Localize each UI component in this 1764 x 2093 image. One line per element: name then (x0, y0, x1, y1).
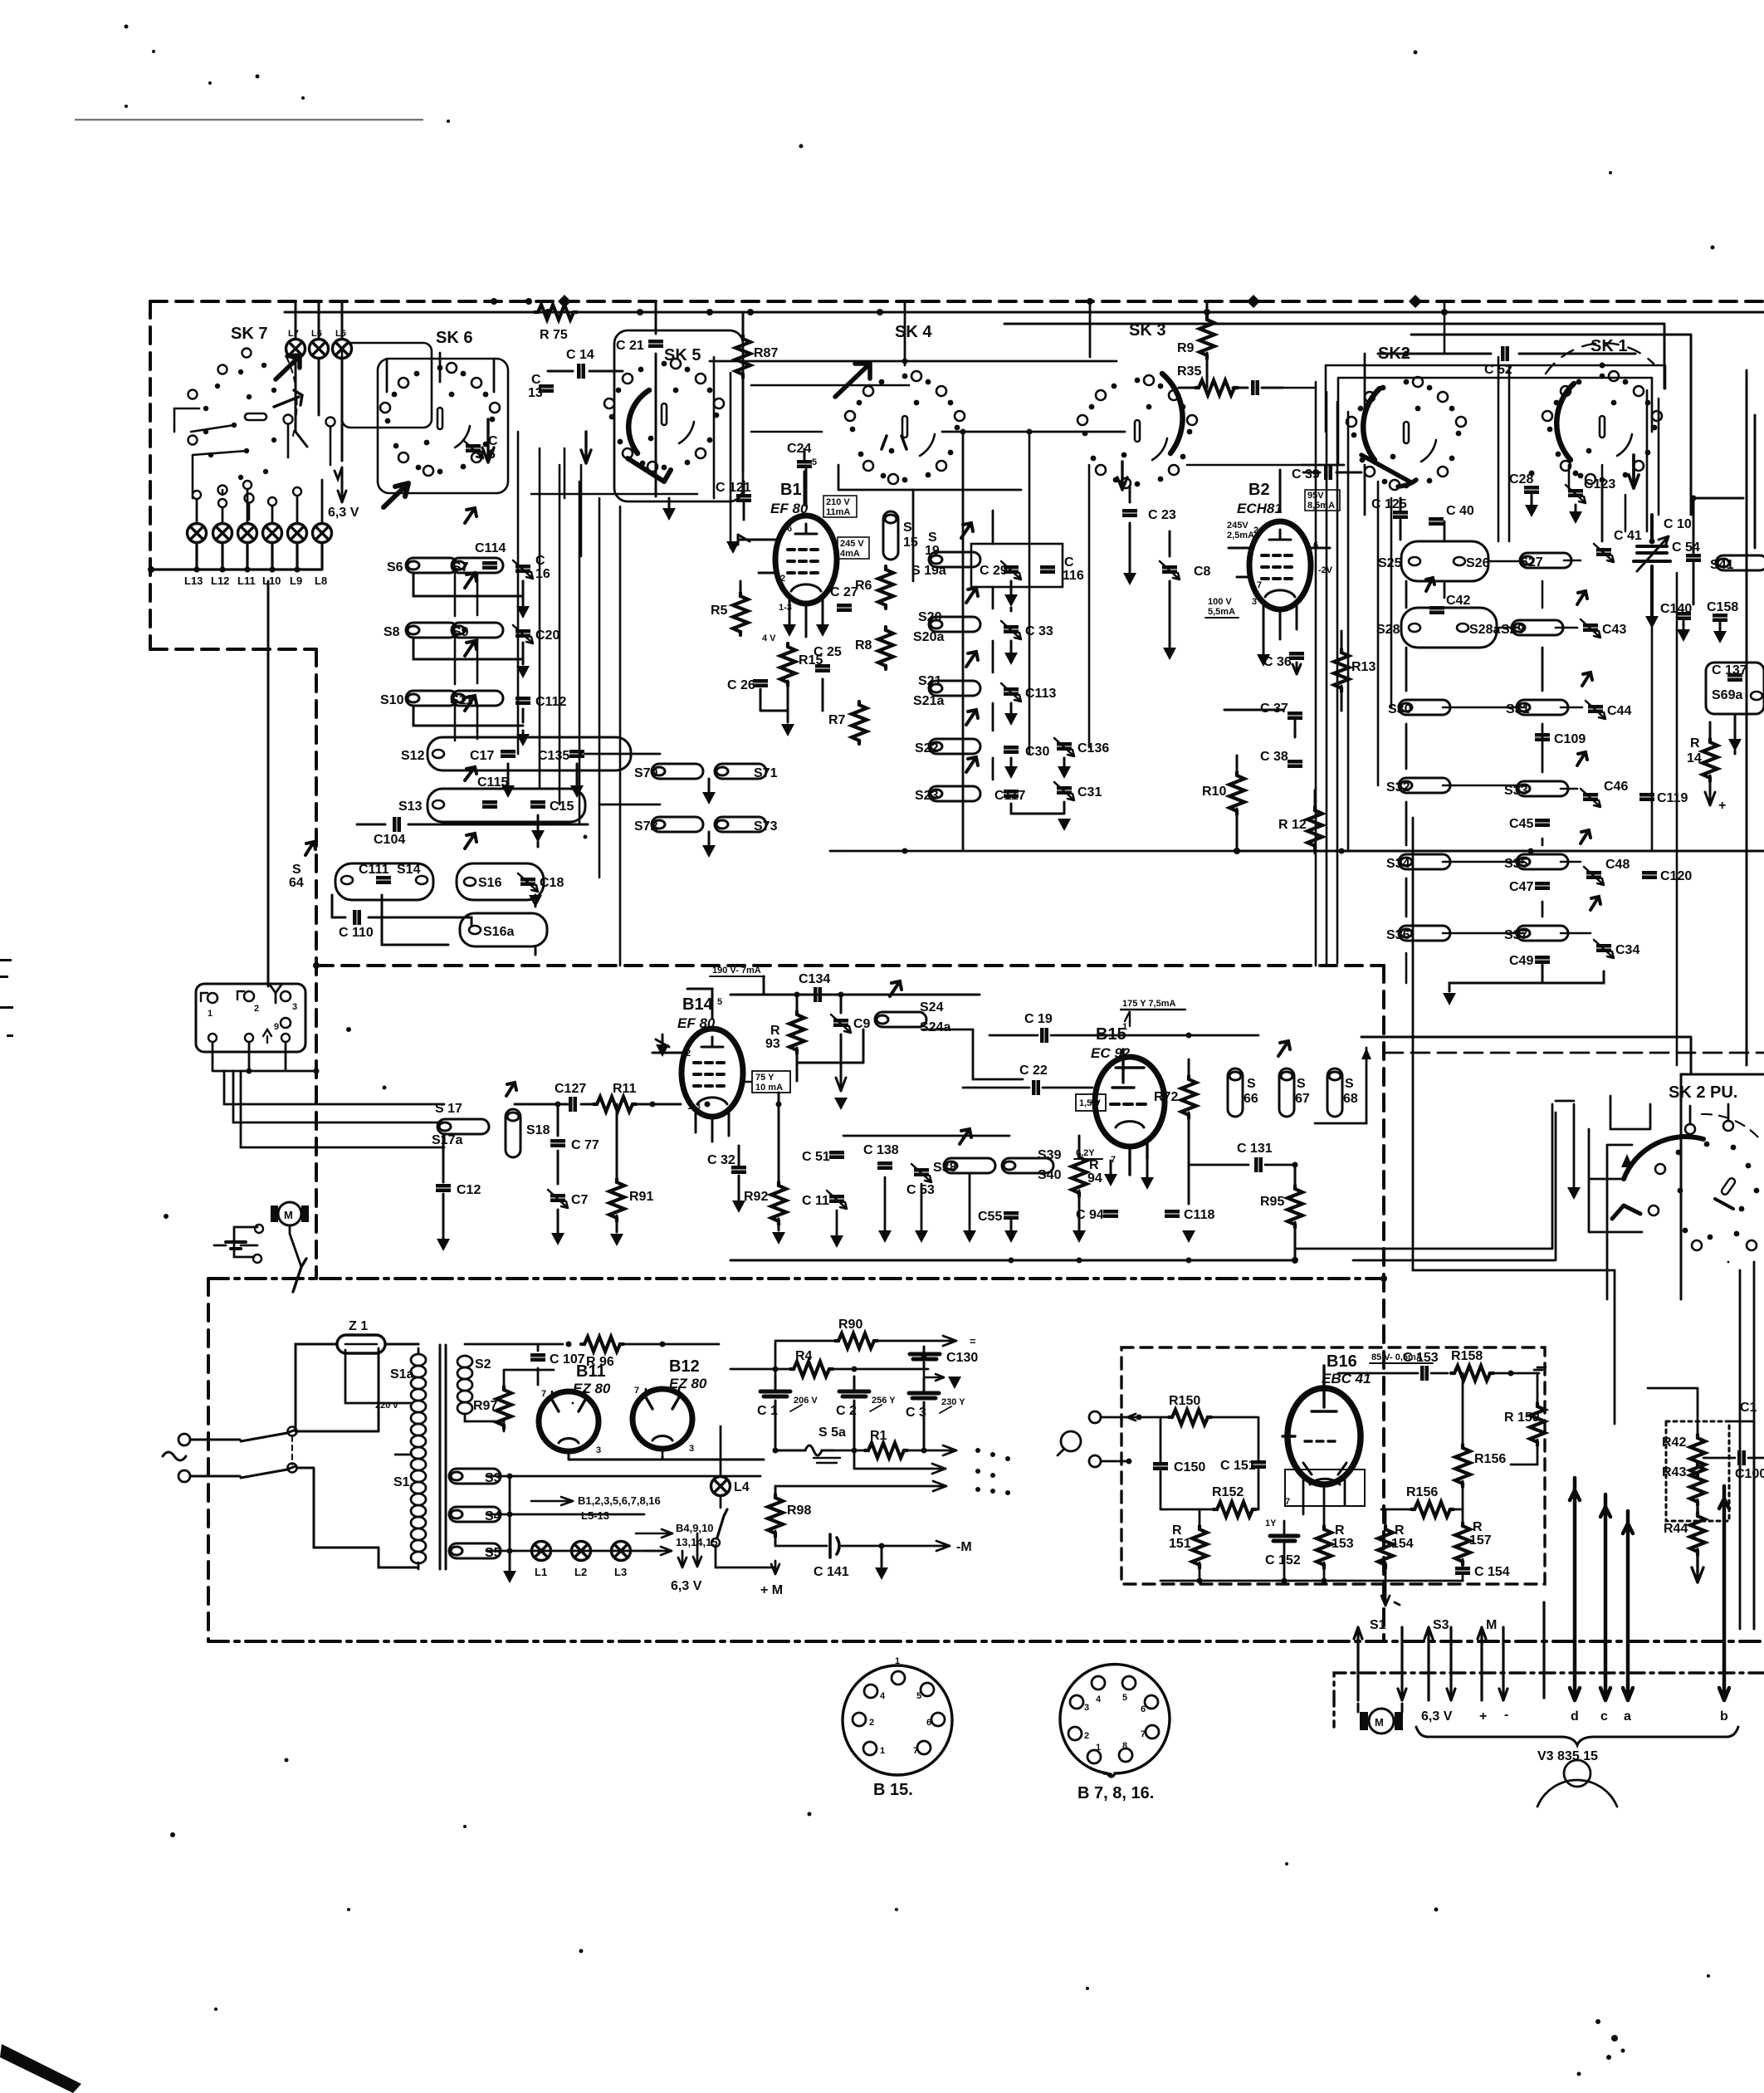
svg-text:S2: S2 (475, 1357, 491, 1372)
svg-text:154: 154 (1391, 1537, 1414, 1551)
pilot lamp L12 (213, 524, 232, 543)
svg-text:B16: B16 (1327, 1352, 1357, 1371)
adj arrow S64 (305, 842, 315, 855)
cap C19 (1040, 1028, 1048, 1043)
cap C40 (1429, 517, 1444, 526)
pilot lamp L8 (313, 524, 332, 543)
SK6 pointer arrow down (482, 419, 494, 462)
tube B16 EBC41 (1288, 1388, 1361, 1484)
IF transformer box S13 C115 C15 (428, 789, 585, 822)
switch SK1 wafer (1542, 371, 1662, 484)
resistor R8 (878, 627, 893, 669)
svg-text:S20a: S20a (913, 630, 944, 644)
cap C153 (1420, 1366, 1429, 1381)
SK7 rotor slot (245, 413, 266, 420)
svg-text:C 22: C 22 (1019, 1064, 1048, 1078)
svg-text:L1: L1 (535, 1566, 547, 1578)
svg-text:+: + (1479, 1709, 1487, 1724)
lamp L4 (711, 1477, 731, 1496)
cap C94 (1103, 1210, 1118, 1218)
SK2 column wires (1406, 581, 1542, 917)
svg-text:C118: C118 (1184, 1208, 1214, 1222)
SK2 rotor thick arm (1361, 455, 1416, 487)
adj arrow S16 (465, 834, 476, 848)
svg-text:C9: C9 (853, 1017, 871, 1031)
lamp L6 (310, 340, 329, 359)
lamp common bus (151, 543, 322, 570)
svg-text:R13: R13 (1351, 660, 1376, 674)
coil S24/S24a (875, 1012, 926, 1027)
B2 pin stubs (1229, 470, 1330, 639)
IF section dashed box top (316, 964, 1384, 967)
coil S36 (1399, 926, 1450, 941)
svg-text:C44: C44 (1607, 704, 1631, 718)
svg-text:S8: S8 (384, 625, 400, 639)
coil S6 (406, 558, 457, 573)
SK2 ground (1443, 993, 1456, 1005)
svg-text:1: 1 (1122, 1022, 1127, 1032)
svg-text:S6: S6 (387, 560, 403, 575)
variable cap C8 (1169, 531, 1171, 648)
svg-text:C 14: C 14 (566, 348, 594, 362)
coil S14 (416, 876, 428, 884)
coil S30 (1399, 700, 1450, 715)
svg-text:EF 80: EF 80 (677, 1015, 716, 1031)
svg-text:S12: S12 (401, 749, 425, 763)
svg-text:C 21: C 21 (616, 339, 644, 353)
coil S38 (944, 1158, 995, 1173)
coil S71 (715, 764, 766, 779)
resistor R42/R43 pot (1690, 1435, 1705, 1477)
wire from lamp bus down the left (267, 581, 270, 986)
svg-text:2: 2 (254, 1004, 259, 1014)
cap C49 (1535, 956, 1550, 964)
svg-text:C 1: C 1 (757, 1404, 778, 1418)
cap C131 (1254, 1157, 1263, 1172)
svg-text:7: 7 (1141, 1729, 1146, 1739)
svg-text:8,5mA: 8,5mA (1307, 501, 1335, 511)
svg-text:C: C (531, 373, 541, 387)
svg-text:C7: C7 (571, 1193, 589, 1207)
svg-text:190 V- 7mA: 190 V- 7mA (712, 966, 761, 976)
resistor R159 (1530, 1403, 1545, 1445)
svg-text:R 159: R 159 (1504, 1411, 1540, 1425)
trimmer C125 (1393, 511, 1408, 519)
cap C23 (1129, 486, 1131, 573)
svg-text:6: 6 (488, 447, 496, 462)
svg-text:R7: R7 (828, 713, 846, 727)
cap C52 on bus (1378, 353, 1635, 355)
coil S8 (406, 623, 457, 638)
coil S9 (452, 623, 503, 638)
svg-text:L6: L6 (311, 329, 322, 339)
resistor R151 (1192, 1526, 1207, 1568)
svg-text:S1a: S1a (390, 1367, 414, 1381)
6.3V feed arrow (338, 469, 346, 502)
svg-text:C 32: C 32 (707, 1153, 735, 1167)
svg-text:L11: L11 (237, 575, 256, 587)
svg-text:1,5 V: 1,5 V (1079, 1098, 1101, 1108)
electrolytic C152 (1270, 1536, 1298, 1541)
SK2 thick stator arc (1363, 389, 1380, 460)
cap C77 (550, 1139, 565, 1147)
coil S67 (1279, 1069, 1294, 1117)
resistor R15 (780, 643, 795, 686)
trimmer C135 (569, 750, 584, 758)
feed wires into SK2PU (1610, 1096, 1728, 1129)
svg-text:B14: B14 (682, 995, 714, 1014)
svg-text:B2: B2 (1248, 481, 1270, 499)
svg-text:16: 16 (535, 567, 550, 581)
svg-text:175 Y 7,5mA: 175 Y 7,5mA (1122, 999, 1175, 1009)
coil S25 (1409, 557, 1420, 565)
svg-text:C 3: C 3 (906, 1406, 926, 1420)
svg-text:S1: S1 (393, 1475, 410, 1489)
bus wire to right (1237, 850, 1764, 853)
transformer primary winding S1 (411, 1348, 426, 1569)
cap C150 (1153, 1462, 1168, 1470)
variable cap C33 (1001, 621, 1021, 639)
svg-text:94: 94 (1087, 1171, 1102, 1186)
coil S23 (929, 786, 980, 801)
svg-text:206 V: 206 V (794, 1396, 818, 1406)
svg-text:R92: R92 (744, 1190, 768, 1204)
svg-text:S: S (903, 521, 912, 535)
svg-text:S21a: S21a (913, 694, 944, 708)
svg-text:SK 7: SK 7 (231, 325, 267, 343)
svg-text:EC 92: EC 92 (1091, 1045, 1131, 1061)
resistor R96 (581, 1337, 623, 1352)
coil S10 (406, 691, 457, 706)
heater 6.3V run bottom (1428, 1699, 1430, 1702)
svg-text:R97: R97 (473, 1399, 497, 1413)
resistor R90 (835, 1333, 877, 1348)
resistor R13 (1334, 649, 1349, 692)
svg-text:7: 7 (1257, 580, 1262, 590)
resistor R11 (594, 1097, 636, 1112)
switch SK4 wafer (845, 371, 965, 484)
switch SK7 wafer contacts (203, 363, 276, 480)
svg-text:3: 3 (1084, 1703, 1089, 1713)
svg-text:C109: C109 (1554, 732, 1586, 746)
cap C110 (332, 895, 472, 929)
cap C140 (1676, 612, 1691, 620)
svg-text:100 V: 100 V (1208, 597, 1232, 607)
variable cap C31 (1054, 782, 1074, 800)
SK6 rotor thick arm (384, 483, 408, 507)
cap C134 (814, 987, 822, 1002)
svg-text:2: 2 (780, 574, 785, 584)
transformer core (440, 1345, 446, 1569)
svg-text:11mA: 11mA (826, 507, 850, 517)
svg-text:L13: L13 (184, 575, 203, 587)
resistor R156 (upper) (1455, 1445, 1470, 1487)
coil S33 (1517, 781, 1568, 796)
svg-text:4: 4 (880, 1691, 886, 1701)
resistor R97 (496, 1386, 511, 1429)
B heater arrow label (531, 1497, 573, 1505)
B2 cathode cap C36 (1289, 652, 1304, 660)
svg-text:L5-13: L5-13 (581, 1509, 609, 1522)
ground arrow below C16 (522, 581, 525, 606)
coil S12 (432, 750, 444, 758)
adj arrow S6 (465, 508, 476, 523)
cap C12 (436, 1184, 451, 1192)
resistor R7 (852, 702, 867, 744)
tube B1 EF80 (775, 516, 837, 604)
svg-text:C 131: C 131 (1237, 1142, 1273, 1156)
svg-text:+ M: + M (760, 1583, 783, 1597)
trimmer C41 (1594, 544, 1614, 562)
svg-text:EZ 80: EZ 80 (573, 1381, 611, 1396)
svg-text:S24a: S24a (920, 1020, 950, 1034)
cap C15 (530, 800, 545, 809)
resistor R9 (1206, 301, 1209, 316)
wire lamp L5 drop (335, 301, 342, 479)
svg-text:S 19a: S 19a (911, 564, 946, 578)
resistor R14 (1703, 739, 1718, 781)
svg-text:C 77: C 77 (571, 1138, 599, 1152)
heater winding S5 (449, 1543, 501, 1558)
cap C25 (815, 664, 830, 672)
switch arm (293, 1259, 306, 1292)
svg-text:S40: S40 (1038, 1168, 1062, 1182)
svg-text:3: 3 (689, 1444, 694, 1454)
svg-text:R98: R98 (787, 1504, 811, 1518)
svg-text:S10: S10 (380, 693, 404, 707)
svg-text:B12: B12 (669, 1357, 700, 1376)
resistor R10 (1229, 772, 1244, 814)
svg-text:S4: S4 (485, 1509, 501, 1523)
svg-text:R87: R87 (754, 346, 778, 360)
svg-text:S23: S23 (915, 789, 939, 803)
SK6 feed wires (387, 353, 494, 392)
svg-text:C: C (535, 554, 545, 568)
svg-text:1: 1 (1096, 1743, 1101, 1753)
B1 grid arrow (738, 535, 750, 545)
lamp L1 (532, 1542, 551, 1561)
svg-text:B11: B11 (576, 1362, 606, 1381)
svg-text:C135: C135 (538, 749, 569, 763)
svg-text:64: 64 (289, 876, 304, 890)
long vertical from SK4 down to IF (1029, 432, 1089, 754)
svg-text:S 17: S 17 (435, 1102, 462, 1116)
lamp feeders (197, 480, 322, 524)
svg-text:S 5a: S 5a (818, 1425, 846, 1440)
svg-text:L3: L3 (614, 1566, 627, 1578)
svg-text:C34: C34 (1615, 943, 1639, 957)
svg-text:EF 80: EF 80 (770, 501, 809, 516)
switch SK3 wafer (1077, 375, 1197, 488)
svg-text:S39: S39 (1038, 1148, 1062, 1162)
svg-text:R8: R8 (855, 638, 872, 653)
svg-text:R90: R90 (838, 1318, 862, 1332)
electrolytic C1 (757, 1377, 818, 1450)
svg-text:3: 3 (596, 1445, 601, 1455)
svg-text:6: 6 (926, 1718, 931, 1728)
wire drops SK1 to coils (1569, 465, 1625, 541)
vertical wiring bundle between SK5/SK6 and lower rows (518, 357, 731, 966)
cap C54 (1686, 554, 1701, 562)
svg-text:B4,9,10: B4,9,10 (676, 1522, 714, 1534)
svg-text:S3: S3 (485, 1471, 501, 1485)
svg-text:SK 5: SK 5 (664, 346, 701, 364)
top-right nested bus wires (1004, 324, 1664, 389)
svg-text:S16: S16 (478, 876, 502, 890)
svg-text:C119: C119 (1657, 791, 1688, 805)
variable cap C11 (827, 1191, 847, 1209)
svg-text:R5: R5 (711, 604, 728, 618)
svg-text:C 54: C 54 (1672, 540, 1700, 555)
svg-text:S36: S36 (1386, 928, 1410, 942)
cap C154 (1455, 1567, 1470, 1575)
bottom right speckles (1595, 2019, 1600, 2024)
SK4 feed wires (710, 301, 1125, 754)
svg-text:S14: S14 (397, 863, 421, 877)
trimmer C115 (482, 800, 497, 809)
svg-text:C 23: C 23 (1148, 508, 1176, 522)
IF exit wires (1295, 1104, 1552, 1249)
resistor R93 (789, 1011, 804, 1054)
svg-text:L8: L8 (315, 575, 327, 587)
svg-text:C 29: C 29 (980, 564, 1008, 578)
svg-text:C 141: C 141 (814, 1565, 849, 1579)
ground between (708, 779, 711, 792)
svg-text:M: M (284, 1209, 293, 1221)
svg-text:C45: C45 (1509, 817, 1533, 831)
cap C24 (797, 460, 812, 468)
antenna terminal box (196, 984, 305, 1052)
coil S72 (652, 817, 703, 832)
SK5 thick stator arc (628, 390, 649, 453)
switch SK2PU wafer (1676, 1142, 1760, 1240)
SK2PU thick rotor (1624, 1137, 1703, 1179)
SK1 thick stator arc (1556, 384, 1574, 460)
svg-text:C123: C123 (1584, 477, 1615, 491)
svg-text:M: M (1486, 1618, 1497, 1632)
coil S13 (432, 800, 444, 809)
feed wires to S17 (224, 1071, 444, 1104)
paper specks top (125, 25, 129, 29)
svg-text:4 V: 4 V (762, 633, 776, 643)
pilot lamp L13 (188, 524, 207, 543)
cap C158 (1713, 614, 1727, 622)
svg-text:4mA: 4mA (840, 549, 860, 559)
svg-text:C150: C150 (1174, 1460, 1205, 1474)
B11/B12 cathode bus (569, 1455, 764, 1460)
SK2 PU frame (1681, 1074, 1764, 1299)
motor linkage (234, 1225, 301, 1267)
cap C22 (1032, 1080, 1040, 1095)
svg-text:6: 6 (787, 524, 792, 534)
tube socket diagram B7,8,16 (1060, 1665, 1170, 1777)
svg-text:R95: R95 (1260, 1195, 1284, 1209)
svg-text:SK 2 PU.: SK 2 PU. (1669, 1083, 1737, 1102)
svg-text:M: M (1375, 1716, 1384, 1729)
svg-text:C 137: C 137 (1712, 663, 1747, 677)
electrolytic C2 (836, 1377, 896, 1450)
svg-text:S73: S73 (754, 819, 778, 834)
svg-text:S41: S41 (1710, 558, 1734, 572)
resistor R154 (1378, 1526, 1393, 1568)
svg-text:-: - (1504, 1708, 1508, 1722)
resistor R95 (1288, 1186, 1302, 1228)
svg-text:S: S (1297, 1077, 1306, 1091)
cap C42 (1429, 606, 1444, 614)
svg-text:R4: R4 (795, 1349, 813, 1363)
resistor R92 (771, 1182, 786, 1225)
svg-text:b: b (1720, 1709, 1728, 1724)
svg-text:S22: S22 (915, 741, 939, 756)
coil S19/S19a (929, 552, 980, 567)
heater winding S4 (449, 1507, 501, 1522)
switch SK2 wafer (1346, 377, 1466, 490)
cap C38 (1288, 760, 1302, 768)
svg-text:S31: S31 (1506, 702, 1530, 716)
nested loop wires right (1326, 365, 1665, 432)
svg-text:S20: S20 (918, 610, 942, 624)
svg-text:=: = (970, 1335, 976, 1347)
svg-text:L10: L10 (262, 575, 281, 587)
svg-text:R: R (1335, 1523, 1345, 1538)
box S28 S28a (1401, 608, 1497, 648)
cap C100 (1737, 1450, 1746, 1465)
svg-text:C18: C18 (540, 876, 564, 890)
top box bottom bus (830, 850, 1237, 853)
long verticals from top box into IF box (962, 754, 965, 851)
svg-text:R11: R11 (613, 1082, 637, 1096)
svg-text:S69a: S69a (1712, 688, 1742, 702)
svg-text:C 121: C 121 (716, 481, 751, 495)
trimmer C20 (513, 625, 533, 643)
svg-text:S: S (292, 863, 301, 877)
long wire exiting right (1361, 1037, 1691, 1074)
SK4 rotor thick arrow (835, 364, 870, 397)
svg-text:3: 3 (292, 1002, 297, 1012)
wire lamp L7 drop (296, 301, 307, 447)
M wire pair (1478, 1627, 1507, 1700)
svg-text:SK 1: SK 1 (1591, 337, 1627, 355)
svg-text:a: a (1624, 1709, 1631, 1724)
electrolytic C3 (906, 1378, 965, 1450)
tube B2 ECH81 (1249, 521, 1311, 609)
power box dashed left (207, 1279, 210, 1641)
svg-text:SK 3: SK 3 (1129, 321, 1165, 340)
wire S16a bottom (382, 895, 448, 945)
svg-text:S17a: S17a (432, 1133, 462, 1147)
svg-text:67: 67 (1295, 1092, 1310, 1106)
svg-text:5,5mA: 5,5mA (1208, 607, 1235, 617)
svg-text:7: 7 (913, 1746, 918, 1756)
terminal 3 (281, 991, 291, 1001)
cap C104 (357, 824, 588, 826)
svg-text:C115: C115 (477, 775, 508, 790)
resistor R155 (horizontal) (1411, 1502, 1454, 1517)
cap C127 (569, 1097, 577, 1112)
svg-text:S71: S71 (754, 766, 778, 780)
box C137 S69a (1706, 663, 1764, 714)
capacitor C13 (539, 384, 554, 393)
svg-text:R 12: R 12 (1278, 818, 1307, 832)
dial lamp / scale icon (1564, 1760, 1591, 1787)
svg-text:R: R (1395, 1523, 1405, 1538)
svg-text:C114: C114 (475, 541, 506, 555)
75V box label (752, 1071, 790, 1093)
svg-text:R156: R156 (1406, 1485, 1438, 1499)
resistor R94 (1072, 1154, 1087, 1196)
trimmer C46 (1581, 789, 1600, 807)
junction dots on top dashed (491, 298, 1448, 315)
